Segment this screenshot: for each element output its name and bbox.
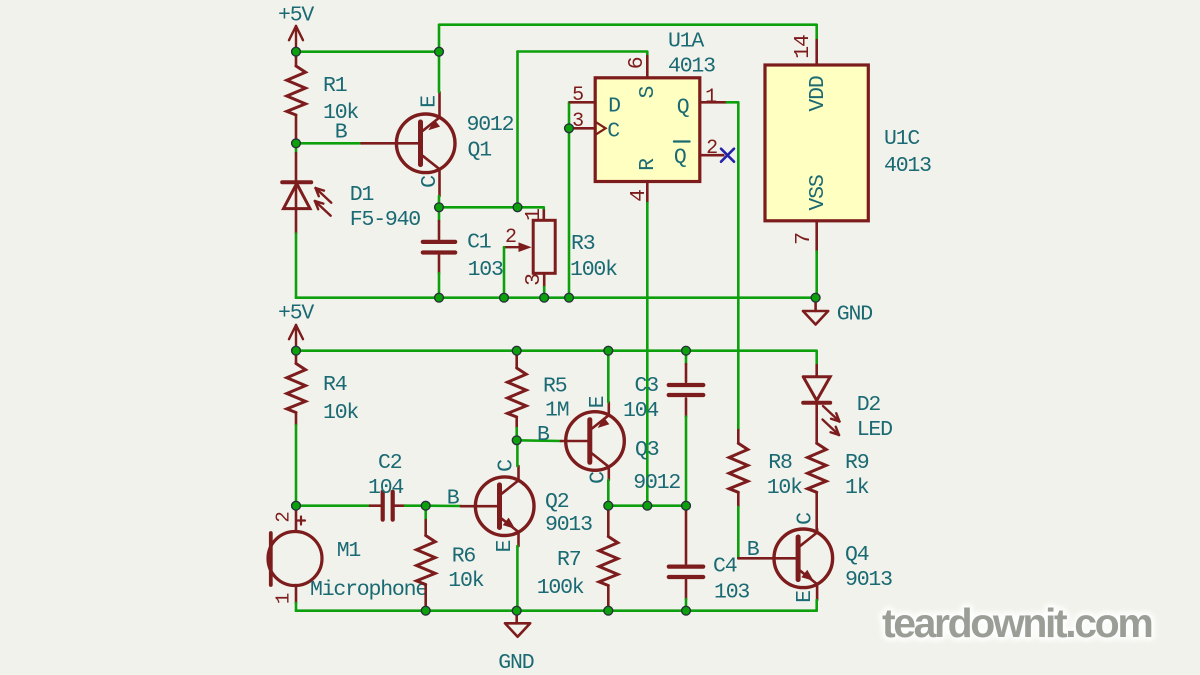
svg-text:VDD: VDD — [806, 76, 830, 111]
svg-text:9012: 9012 — [633, 471, 680, 495]
resistor R4 — [287, 351, 359, 506]
junction (569,297.7) — [565, 293, 574, 302]
capacitor C4 — [669, 506, 750, 611]
resistor R5 — [508, 351, 569, 441]
svg-text:U1C: U1C — [884, 127, 919, 151]
wire Q1 base (296,143.3)-(361.5,143.3) — [296, 142, 362, 145]
resistor R7 — [537, 506, 618, 611]
U1A pin 4 R — [627, 158, 660, 203]
svg-text:1M: 1M — [545, 399, 569, 423]
junction (517.5,207.3) — [513, 203, 522, 212]
svg-text:C2: C2 — [378, 451, 402, 475]
svg-text:B: B — [537, 423, 550, 447]
svg-text:2: 2 — [273, 512, 295, 523]
svg-text:9013: 9013 — [545, 513, 592, 537]
svg-text:7: 7 — [792, 233, 816, 245]
junction (439,207.3) — [435, 203, 444, 212]
wire Q2 C (518.5? ) (517,466)-(517,440.3) — [516, 440, 519, 466]
junction (516.7,350.7) — [512, 346, 521, 355]
svg-text:+5V: +5V — [278, 4, 314, 28]
junction (815.6,297.7) — [811, 293, 820, 302]
junction (686,610.7) — [682, 606, 691, 615]
svg-text:C: C — [607, 120, 619, 144]
svg-text:2: 2 — [706, 137, 717, 160]
svg-text:2: 2 — [505, 226, 516, 249]
wire Q1 C (439,196)-(439,207.3) — [438, 196, 441, 207]
svg-text:R5: R5 — [543, 375, 567, 399]
svg-text:U1A: U1A — [668, 30, 704, 54]
svg-text:9012: 9012 — [467, 113, 514, 137]
svg-text:10k: 10k — [767, 476, 802, 500]
svg-text:B: B — [447, 486, 460, 510]
svg-text:LED: LED — [857, 418, 892, 442]
svg-text:Q2: Q2 — [545, 490, 569, 514]
junction (296,350.7) — [292, 346, 301, 355]
junction (296,505.7) — [292, 501, 301, 510]
junction (686,350.7) — [682, 346, 691, 355]
wire (439,207.3)-(543.8,207.3)-(543.8,210.5) — [439, 207, 544, 210]
svg-text:1: 1 — [705, 86, 717, 109]
svg-text:teardownit.com: teardownit.com — [882, 600, 1151, 646]
LED D2 — [803, 365, 892, 443]
junction (516.7,610.7) — [512, 606, 521, 615]
svg-text:VSS: VSS — [806, 175, 830, 210]
wire rail (296,350.7)-(816.7,350.7)-(816.7,365) — [296, 351, 817, 365]
svg-text:103: 103 — [468, 258, 503, 282]
IC U1A 4013 body — [595, 30, 715, 182]
svg-text:10k: 10k — [448, 569, 483, 593]
svg-text:R6: R6 — [452, 545, 476, 569]
wire rail (296,297.7)-(815.6,297.7) — [296, 296, 816, 299]
photodiode D1 — [282, 143, 420, 233]
svg-text:+5V: +5V — [278, 302, 314, 326]
wire (608.3,505.7)-(686,505.7) — [608, 504, 686, 507]
capacitor C2 — [368, 451, 426, 520]
svg-text:E: E — [793, 591, 817, 603]
svg-text:5: 5 — [572, 84, 583, 107]
svg-text:10k: 10k — [323, 401, 358, 425]
transistor Q1 — [335, 92, 514, 196]
U1A pin 1 Q — [677, 86, 727, 120]
wire (439,51.7)-(439,24.7)-(816.7,24.7)-(816.7,40) — [439, 25, 817, 52]
svg-text:E: E — [493, 541, 517, 553]
svg-text:Microphone: Microphone — [310, 578, 427, 602]
svg-text:103: 103 — [714, 581, 749, 605]
junction (608.3,610.7) — [604, 606, 613, 615]
junction (425.7,505.7) — [421, 501, 430, 510]
svg-text:3: 3 — [522, 274, 546, 286]
svg-text:R3: R3 — [571, 232, 595, 256]
svg-text:Q3: Q3 — [635, 438, 659, 462]
ground (bottom) — [498, 611, 533, 675]
wire rail (296,610.7)-(815,610.7) — [296, 609, 815, 612]
U1A pin 3 C — [569, 110, 619, 144]
transistor Q3 — [537, 396, 680, 495]
svg-text:M1: M1 — [337, 539, 361, 563]
junction (544.2,297.7) — [540, 293, 549, 302]
svg-text:R7: R7 — [557, 548, 581, 572]
junction (608.3,505.7) — [604, 501, 613, 510]
svg-text:1k: 1k — [845, 476, 869, 500]
svg-text:GND: GND — [498, 651, 533, 675]
svg-text:B: B — [335, 121, 348, 145]
transistor Q2 — [447, 460, 592, 553]
wire (816.7,251.6)-(816.7,297.7) — [815, 252, 818, 298]
svg-text:6: 6 — [625, 57, 649, 69]
svg-text:1: 1 — [522, 209, 546, 221]
U1A pin 2 Qbar — [674, 137, 723, 170]
junction (569,128.3) — [565, 124, 574, 133]
ground (right) — [803, 298, 872, 327]
svg-text:Q4: Q4 — [845, 543, 869, 567]
power symbol +5V (top) — [278, 4, 314, 52]
IC U1C 4013 body — [765, 65, 931, 221]
svg-text:4: 4 — [627, 190, 651, 202]
svg-text:C: C — [418, 176, 442, 188]
resistor R6 — [417, 506, 484, 611]
svg-text:S: S — [636, 87, 660, 99]
junction (296,51.7) — [292, 47, 301, 56]
microphone M1 — [268, 506, 427, 611]
U1C pin 7 VSS — [792, 175, 830, 251]
wire Q1 E (439,92)-(439,51.7) — [438, 52, 441, 92]
junction (439,297.7) — [435, 293, 444, 302]
svg-text:D1: D1 — [350, 183, 374, 207]
svg-text:14: 14 — [791, 35, 815, 59]
wire Q out (726.7,102.3)-(738.3,102.3)-(738.3,430) — [727, 102, 739, 430]
wire (738.3,507)-(738.3,558.3) — [737, 507, 740, 558]
svg-text:C: C — [495, 460, 519, 472]
U1A pin 6 S — [625, 56, 660, 99]
resistor R1 — [287, 52, 359, 144]
wire Q3 C (608.3,480)-(608.3,505.7) — [607, 480, 610, 506]
transistor Q4 — [738, 513, 892, 603]
svg-text:Q1: Q1 — [468, 139, 492, 163]
junction (504,297.7) — [500, 293, 509, 302]
junction (425.7,610.7) — [421, 606, 430, 615]
svg-text:C: C — [587, 472, 611, 484]
capacitor C1 — [423, 207, 503, 297]
svg-text:C: C — [794, 513, 818, 525]
power symbol +5V (bottom) — [278, 302, 314, 351]
junction (296,143.3) — [292, 139, 301, 148]
svg-text:4013: 4013 — [668, 55, 715, 79]
U1A pin 5 D — [570, 84, 620, 119]
svg-text:4013: 4013 — [884, 154, 931, 178]
wire (517.5,51.5)-(647.3,51.5)-(647.3,56) — [518, 52, 648, 57]
resistor R8 — [729, 430, 802, 507]
wire +5V rail (296,51.7)-(439,51.7) — [296, 50, 439, 53]
svg-text:C1: C1 — [467, 231, 491, 255]
potentiometer R3 — [504, 209, 617, 298]
wire Q2 E (517.4,546)-(517.4,610.7) — [516, 546, 519, 611]
svg-text:D2: D2 — [857, 393, 881, 417]
svg-text:104: 104 — [623, 399, 658, 423]
svg-text:C3: C3 — [635, 374, 659, 398]
svg-text:104: 104 — [368, 476, 403, 500]
svg-text:9013: 9013 — [845, 568, 892, 592]
svg-text:F5-940: F5-940 — [350, 208, 421, 232]
wire Q3 E (608.3,402)-(608.3,350.7) — [607, 351, 610, 402]
svg-text:100k: 100k — [537, 576, 584, 600]
wire U1A pins 5-3 link — [568, 102, 571, 128]
junction (647.3,505.7) — [643, 501, 652, 510]
wire (516.7,440.3)-(561,441) — [517, 439, 561, 442]
svg-text:C4: C4 — [713, 555, 737, 579]
svg-text:B: B — [747, 538, 760, 562]
svg-text:GND: GND — [837, 303, 872, 327]
svg-text:R1: R1 — [323, 74, 347, 98]
wire (296,505.7)-(370,505.7) — [296, 504, 370, 507]
wire (569,128.3)-(569,297.7) — [568, 128, 571, 297]
wire (517.5,51.5)-(517.5,207.3) — [516, 52, 519, 208]
U1C pin 14 VDD — [791, 35, 830, 112]
wire (425.7,505.7)-(461,506) — [426, 504, 461, 507]
svg-text:Q: Q — [677, 96, 689, 120]
svg-text:R4: R4 — [323, 373, 347, 397]
junction (439,51.7) — [435, 47, 444, 56]
wire Q4 E (816.7,600)-(816.7,610.7)-(815,610.7) — [815, 600, 817, 611]
capacitor C3 — [623, 351, 703, 506]
svg-text:100k: 100k — [570, 258, 617, 282]
svg-text:R8: R8 — [768, 451, 792, 475]
svg-text:Q: Q — [674, 146, 686, 170]
wire (296,233.5)-(296,297.7) — [295, 234, 298, 298]
no-connect X on pin 2 — [721, 149, 734, 162]
junction (686,505.7) — [682, 501, 691, 510]
svg-text:E: E — [418, 96, 442, 108]
resistor R9 — [808, 443, 869, 529]
svg-text:1: 1 — [273, 593, 295, 604]
junction (516.7,440.3) — [512, 436, 521, 445]
svg-text:E: E — [586, 396, 610, 408]
svg-text:D: D — [608, 95, 620, 119]
wire R pin (647.3,203)-(647.3,505.7) — [646, 203, 649, 506]
junction (608.3,350.7) — [604, 346, 613, 355]
svg-text:R9: R9 — [845, 451, 869, 475]
svg-text:R: R — [636, 158, 660, 171]
